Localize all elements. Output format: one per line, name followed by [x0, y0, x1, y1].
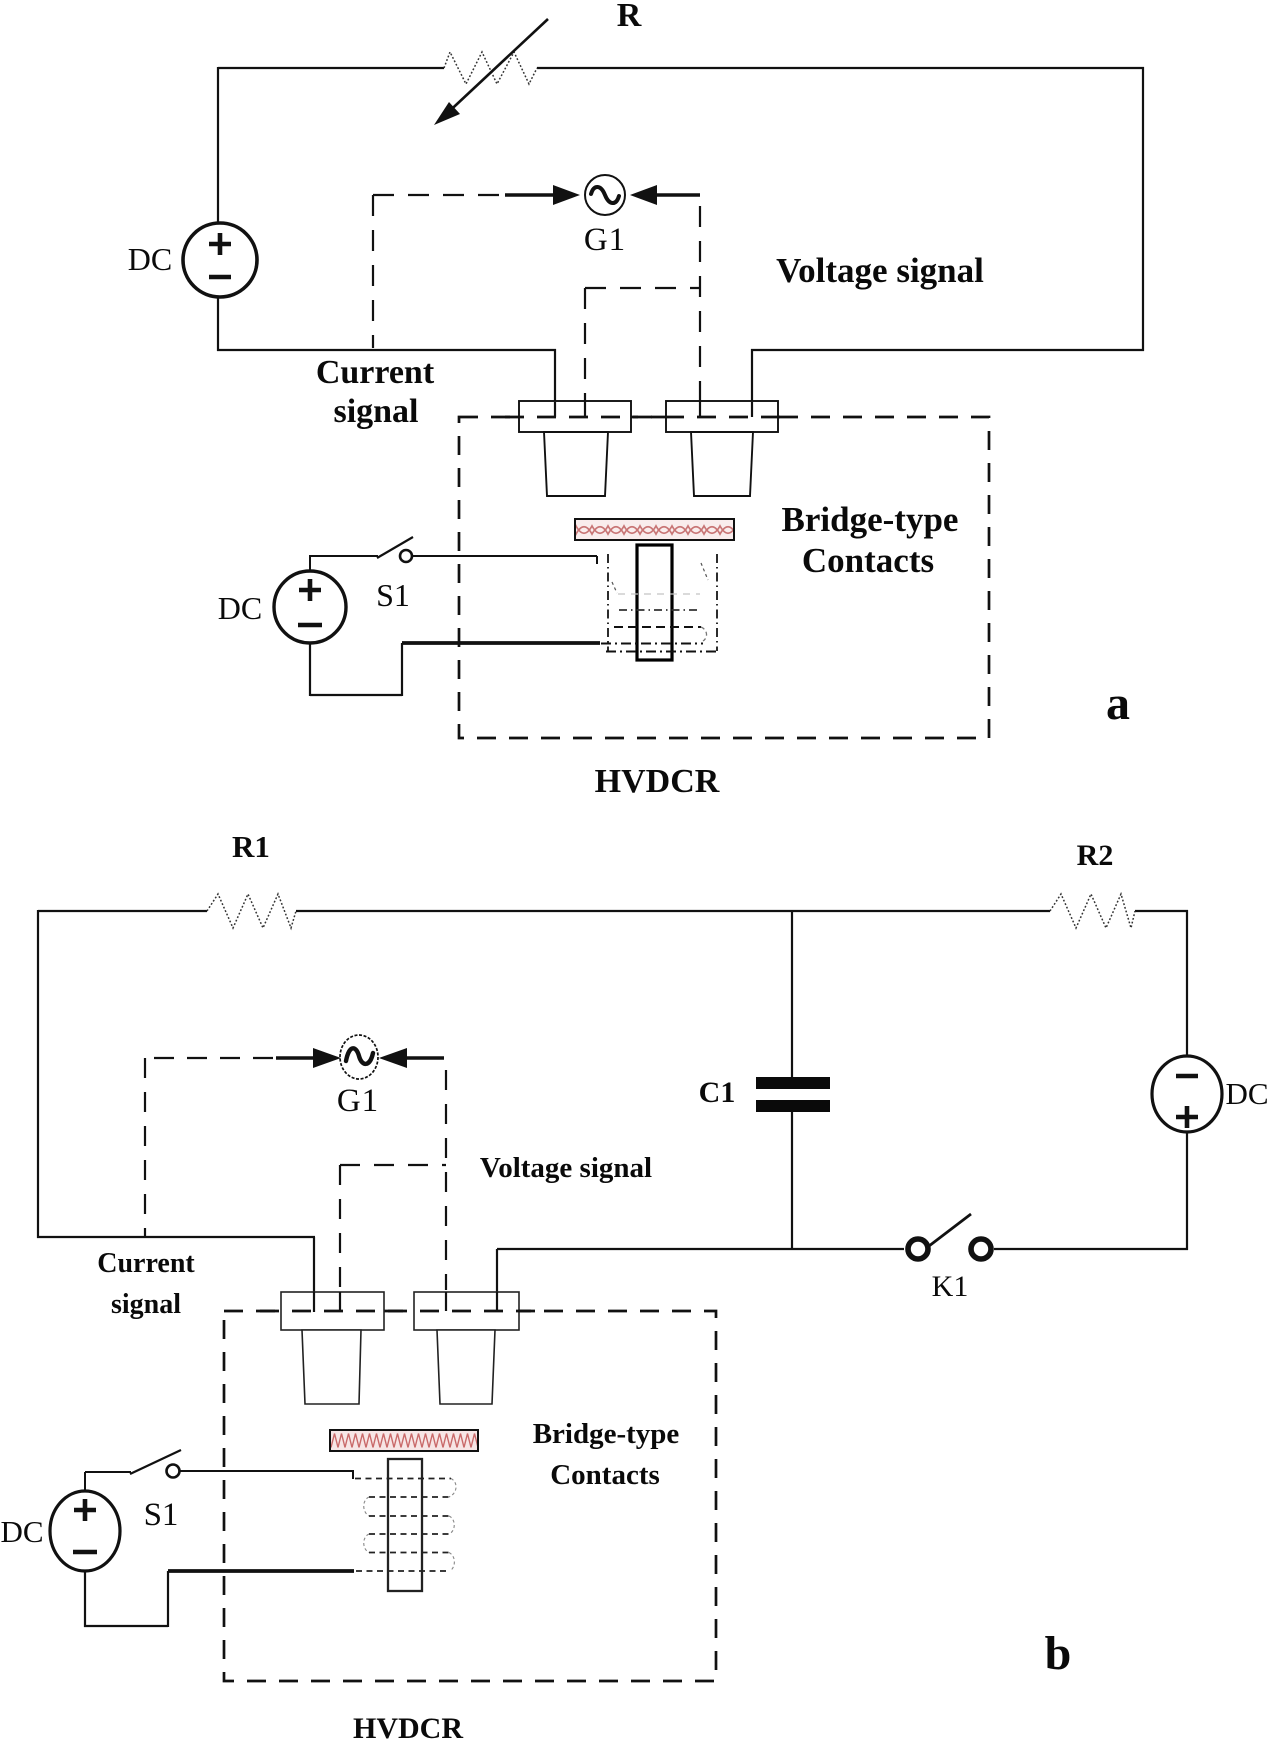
wire left vertical (fig b): [37, 910, 39, 1238]
G1 circle (fig b): [340, 1035, 378, 1079]
relay switch K1: [908, 1239, 928, 1259]
svg-text:G1: G1: [584, 222, 626, 258]
G1 arrow right (fig b): [379, 1048, 407, 1068]
svg-text:Bridge-type: Bridge-type: [782, 500, 959, 539]
svg-text:R1: R1: [232, 829, 270, 864]
svg-text:R: R: [617, 0, 642, 34]
svg-text:S1: S1: [144, 1497, 179, 1533]
wire right vertical upper (fig b): [1186, 910, 1188, 1057]
svg-text:DC: DC: [128, 241, 172, 277]
svg-text:DC: DC: [218, 590, 262, 626]
DC source (fig b left): [50, 1491, 120, 1571]
G1 solid lead + arrow right: [630, 185, 657, 205]
DC source (coil supply, fig a): [274, 571, 346, 643]
svg-text:signal: signal: [111, 1289, 181, 1320]
svg-text:DC: DC: [0, 1514, 43, 1549]
wire DC2 bottom loop (fig a): [310, 643, 402, 696]
svg-text:HVDCR: HVDCR: [353, 1712, 463, 1745]
svg-text:Voltage signal: Voltage signal: [480, 1152, 652, 1184]
svg-text:Current: Current: [97, 1248, 195, 1279]
contact wire stubs (fig b): [313, 1292, 315, 1312]
wire bottom left (fig a current path): [217, 349, 556, 402]
bridge contact right (fig a): [666, 401, 778, 432]
dashed sense wire right vertical (fig a): [699, 206, 701, 401]
switch S1 (fig a): [310, 556, 378, 571]
armature rod (fig a): [637, 545, 672, 660]
svg-text:C1: C1: [699, 1076, 736, 1109]
bridge contact left (fig b): [281, 1292, 384, 1330]
switch S1 (fig b): [85, 1472, 131, 1491]
svg-text:a: a: [1106, 677, 1130, 730]
G1 solid lead + arrow left (fig b): [276, 1056, 316, 1059]
svg-text:R2: R2: [1077, 839, 1114, 872]
svg-text:DC: DC: [1225, 1076, 1267, 1111]
armature rod (fig b): [388, 1459, 422, 1591]
wire DC bottom loop (fig b): [84, 1571, 168, 1627]
coil feed wire bottom thick (fig a): [402, 641, 600, 645]
dashed sense wire left vertical (fig a): [372, 195, 374, 348]
wire top right segment (fig a): [537, 67, 1144, 69]
wire bottom left (fig b): [37, 1237, 315, 1312]
wire bottom right (fig b): [497, 1248, 904, 1250]
wire top (fig b) segments: [38, 910, 207, 912]
DC source (fig b right): [1152, 1056, 1222, 1132]
svg-text:S1: S1: [376, 577, 410, 613]
dashed sense wire right vertical (fig b): [445, 1070, 447, 1290]
coil feed wire top (fig a): [413, 556, 597, 564]
dashed sense tap horizontal (fig a): [585, 287, 700, 289]
resistor R1 (dotted zigzag): [207, 894, 296, 928]
wire bottom right (fig a voltage path): [751, 349, 1144, 402]
svg-text:HVDCR: HVDCR: [595, 763, 720, 800]
wire left vertical upper (fig a): [217, 67, 219, 223]
svg-text:signal: signal: [333, 393, 418, 430]
coil (fig a, dash-dot solenoid): [601, 554, 717, 652]
G1 solid lead + arrow left: [505, 193, 556, 196]
svg-text:Contacts: Contacts: [550, 1459, 660, 1491]
generator G1 (fig b) dashed lead left: [154, 1057, 276, 1059]
dashed sense tap vertical (fig b): [339, 1165, 341, 1290]
HVDCR dashed enclosure (fig a): [459, 417, 989, 738]
capacitor C1 node verticals: [791, 911, 793, 1077]
wire right vertical lower (fig b): [1186, 1132, 1188, 1250]
wire right vertical (fig a): [1142, 67, 1144, 351]
svg-text:Voltage signal: Voltage signal: [776, 251, 984, 290]
dashed box edge over contacts (fig a): [505, 416, 792, 419]
svg-text:Contacts: Contacts: [802, 541, 934, 580]
svg-text:b: b: [1045, 1627, 1072, 1680]
wire top left segment (fig a): [218, 67, 444, 69]
op G1 circle (fig a): [585, 175, 625, 215]
coil (fig b, dashed solenoid rows): [355, 1479, 451, 1572]
resistor R (variable, dotted zigzag): [444, 52, 537, 84]
bridge contact right (fig b): [414, 1292, 519, 1330]
dashed sense tap horizontal (fig b): [340, 1164, 446, 1166]
capacitor C1 plates: [756, 1077, 830, 1089]
contact wire stubs (fig a): [554, 402, 556, 417]
resistor R2 (dotted zigzag): [1050, 894, 1135, 928]
dashed sense tap vertical (fig a): [584, 288, 586, 401]
svg-text:G1: G1: [337, 1083, 379, 1119]
contact strip (pink hatched, fig a): [575, 519, 734, 540]
contact strip (pink hatched, fig b): [330, 1430, 478, 1451]
generator G1 (fig a) dashed lead left: [373, 194, 505, 196]
svg-text:K1: K1: [932, 1270, 969, 1303]
coil feed wire top (fig b): [180, 1471, 354, 1479]
resistor R arrow: [441, 19, 548, 119]
svg-text:Bridge-type: Bridge-type: [533, 1418, 680, 1450]
bridge contact left (fig a): [519, 401, 631, 432]
dashed box edge over contacts (fig b): [260, 1310, 540, 1313]
svg-text:Current: Current: [316, 354, 435, 391]
coil feed wire bottom thick (fig b): [168, 1569, 354, 1573]
dashed sense wire left vertical (fig b): [144, 1058, 146, 1236]
HVDCR dashed enclosure (fig b): [224, 1311, 716, 1681]
DC source (main loop, fig a): [183, 223, 257, 297]
wire left vertical lower (fig a): [217, 297, 219, 351]
